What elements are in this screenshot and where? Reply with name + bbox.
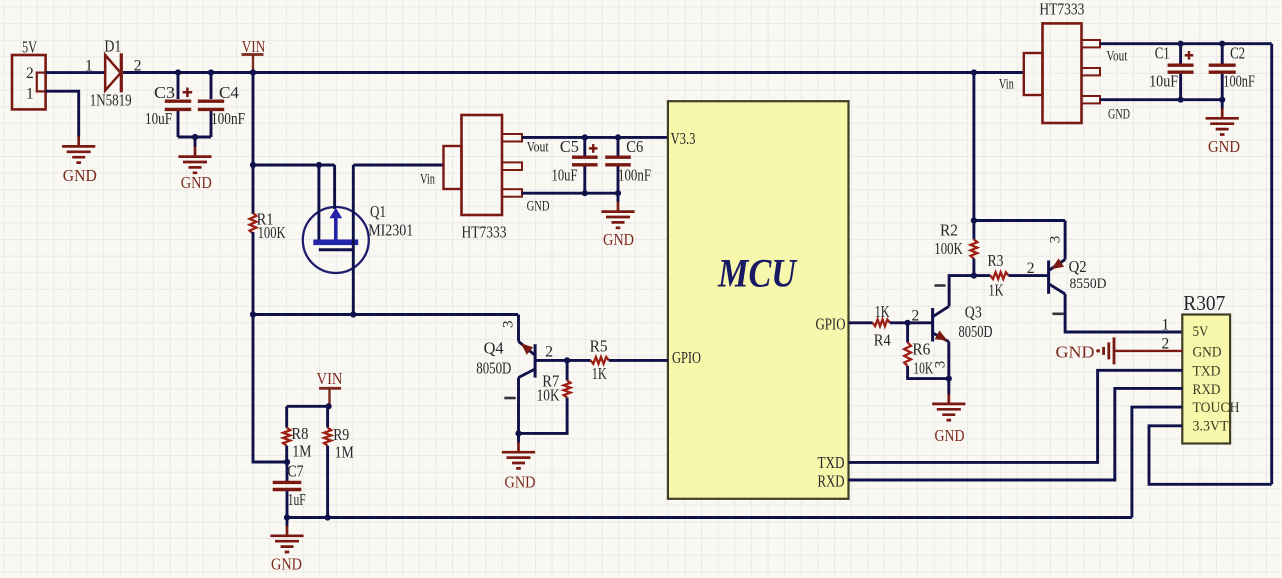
svg-text:C4: C4 — [219, 83, 239, 102]
svg-text:Q1: Q1 — [370, 202, 386, 221]
svg-text:GND: GND — [63, 166, 97, 185]
svg-text:3: 3 — [1048, 236, 1064, 244]
svg-text:2: 2 — [545, 344, 553, 361]
svg-text:GND: GND — [1056, 343, 1095, 362]
svg-text:GND: GND — [527, 199, 550, 215]
svg-text:3.3VT: 3.3VT — [1193, 419, 1229, 435]
svg-text:3: 3 — [933, 361, 949, 369]
svg-text:MCU: MCU — [717, 251, 798, 296]
svg-text:1: 1 — [1162, 317, 1170, 334]
svg-text:C2: C2 — [1230, 44, 1245, 63]
svg-text:C1: C1 — [1155, 44, 1170, 63]
svg-text:8050D: 8050D — [476, 359, 511, 378]
svg-text:Vin: Vin — [999, 77, 1014, 93]
svg-text:GPIO: GPIO — [672, 348, 701, 367]
svg-text:RXD: RXD — [1193, 382, 1221, 398]
svg-text:R3: R3 — [988, 251, 1004, 270]
svg-text:TXD: TXD — [1193, 364, 1221, 380]
svg-text:V3.3: V3.3 — [671, 129, 696, 148]
svg-text:10uF: 10uF — [1149, 72, 1178, 91]
svg-text:HT7333: HT7333 — [1039, 0, 1084, 19]
svg-text:Vout: Vout — [1106, 49, 1128, 65]
svg-text:GND: GND — [935, 426, 965, 445]
svg-text:R2: R2 — [940, 221, 958, 240]
svg-text:2: 2 — [26, 65, 34, 82]
svg-text:GPIO: GPIO — [816, 315, 846, 334]
svg-text:Q4: Q4 — [484, 339, 504, 358]
svg-text:1M: 1M — [292, 442, 311, 461]
svg-text:1K: 1K — [989, 281, 1004, 300]
svg-text:TOUCH: TOUCH — [1193, 400, 1240, 416]
svg-text:Vin: Vin — [420, 172, 435, 188]
svg-text:2: 2 — [1027, 260, 1035, 277]
svg-text:Vout: Vout — [527, 140, 550, 156]
svg-text:2: 2 — [912, 308, 920, 325]
svg-text:C3: C3 — [154, 83, 175, 102]
svg-text:10K: 10K — [913, 359, 933, 378]
svg-text:8050D: 8050D — [959, 322, 993, 341]
svg-text:C5: C5 — [560, 137, 579, 156]
svg-text:D1: D1 — [104, 37, 121, 56]
svg-text:HT7333: HT7333 — [462, 223, 507, 242]
svg-text:GND: GND — [1208, 137, 1240, 156]
svg-text:1N5819: 1N5819 — [90, 91, 132, 110]
svg-text:GND: GND — [603, 230, 634, 249]
svg-text:100K: 100K — [258, 223, 286, 242]
svg-text:GND: GND — [271, 555, 302, 574]
svg-text:100K: 100K — [934, 239, 963, 258]
svg-text:GND: GND — [181, 173, 212, 192]
svg-text:1uF: 1uF — [288, 490, 306, 509]
svg-text:MI2301: MI2301 — [368, 221, 413, 240]
svg-text:100nF: 100nF — [211, 109, 245, 128]
svg-text:10uF: 10uF — [552, 166, 578, 185]
svg-text:GND: GND — [1193, 345, 1222, 361]
svg-text:1: 1 — [26, 86, 34, 103]
svg-text:R6: R6 — [912, 340, 930, 359]
svg-text:GND: GND — [1108, 107, 1130, 123]
svg-text:5V: 5V — [22, 38, 37, 57]
svg-text:Q3: Q3 — [965, 303, 982, 322]
svg-text:C6: C6 — [626, 137, 643, 156]
svg-text:R9: R9 — [333, 425, 349, 444]
svg-text:R5: R5 — [590, 337, 608, 356]
svg-text:100nF: 100nF — [618, 166, 651, 185]
svg-text:3: 3 — [501, 321, 517, 329]
svg-text:R307: R307 — [1183, 291, 1225, 315]
svg-text:GND: GND — [505, 473, 536, 492]
svg-text:1K: 1K — [875, 302, 890, 321]
svg-text:100nF: 100nF — [1223, 72, 1255, 91]
svg-text:1: 1 — [85, 58, 93, 75]
svg-text:8550D: 8550D — [1070, 276, 1107, 292]
svg-text:VIN: VIN — [242, 37, 266, 56]
svg-text:Q2: Q2 — [1069, 257, 1087, 276]
svg-text:R8: R8 — [291, 424, 308, 443]
svg-text:10K: 10K — [537, 386, 560, 405]
svg-text:10uF: 10uF — [145, 109, 172, 128]
svg-text:1K: 1K — [592, 364, 607, 383]
svg-text:TXD: TXD — [818, 453, 845, 472]
svg-text:C7: C7 — [288, 462, 304, 481]
svg-text:R4: R4 — [874, 331, 891, 350]
svg-text:VIN: VIN — [317, 369, 343, 388]
svg-text:5V: 5V — [1193, 324, 1209, 340]
svg-text:RXD: RXD — [818, 472, 845, 491]
svg-text:1M: 1M — [335, 443, 354, 462]
